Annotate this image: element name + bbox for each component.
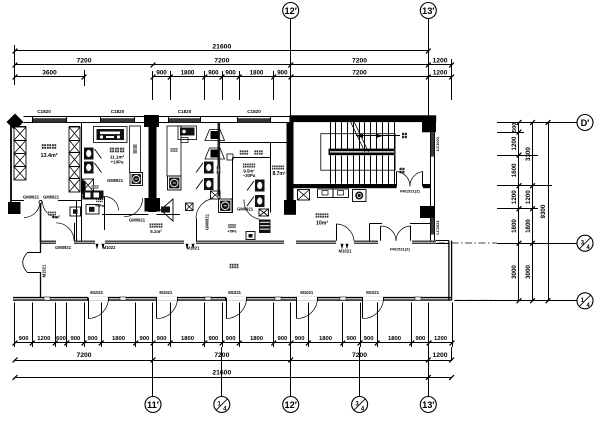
svg-text:1200: 1200 — [433, 70, 448, 77]
svg-text:C1820: C1820 — [37, 109, 51, 114]
svg-text:1800: 1800 — [319, 336, 333, 342]
svg-text:+5Pa: +5Pa — [228, 230, 238, 234]
svg-text:13′: 13′ — [422, 6, 435, 16]
svg-text:GM0921: GM0921 — [43, 195, 60, 200]
svg-text:900: 900 — [156, 70, 167, 77]
svg-text:900: 900 — [277, 70, 288, 77]
svg-text:M1021: M1021 — [366, 290, 379, 295]
svg-text:900: 900 — [226, 336, 237, 342]
svg-text:900: 900 — [157, 336, 168, 342]
svg-text:1800: 1800 — [112, 336, 126, 342]
svg-text:500: 500 — [512, 122, 518, 132]
svg-text:13.4m²: 13.4m² — [40, 153, 57, 159]
svg-text:21600: 21600 — [212, 44, 231, 51]
svg-text:900: 900 — [208, 336, 219, 342]
svg-text:GM0921: GM0921 — [205, 213, 210, 230]
svg-text:1200: 1200 — [434, 336, 448, 342]
svg-text:1200: 1200 — [432, 58, 447, 65]
svg-text:8.7m²: 8.7m² — [272, 171, 285, 177]
svg-text:1200: 1200 — [511, 190, 518, 204]
svg-text:9300: 9300 — [540, 204, 547, 218]
svg-text:1200: 1200 — [525, 190, 532, 204]
svg-text:3300: 3300 — [525, 147, 532, 161]
svg-text:10m²: 10m² — [316, 220, 328, 226]
svg-text:900: 900 — [364, 336, 375, 342]
svg-text:M1021: M1021 — [339, 249, 352, 254]
svg-text:7200: 7200 — [214, 58, 229, 65]
svg-text:1800: 1800 — [250, 336, 264, 342]
svg-text:LC1021: LC1021 — [435, 136, 440, 151]
svg-text:1800: 1800 — [511, 219, 518, 233]
svg-text:–30Pa: –30Pa — [243, 173, 256, 178]
svg-text:1800: 1800 — [525, 219, 532, 233]
svg-text:600: 600 — [56, 336, 67, 342]
svg-text:3000: 3000 — [511, 265, 518, 279]
svg-text:GM0921: GM0921 — [107, 178, 124, 183]
svg-text:900: 900 — [277, 336, 288, 342]
svg-text:7200: 7200 — [76, 58, 91, 65]
svg-text:7200: 7200 — [352, 70, 367, 77]
svg-text:7200: 7200 — [76, 352, 91, 359]
svg-text:1800: 1800 — [181, 336, 195, 342]
svg-text:1600: 1600 — [511, 163, 518, 177]
svg-text:C1820: C1820 — [247, 109, 261, 114]
svg-text:C1820: C1820 — [111, 109, 125, 114]
svg-text:900: 900 — [225, 70, 236, 77]
svg-text:1800: 1800 — [181, 70, 195, 77]
svg-text:+5Pa: +5Pa — [95, 204, 105, 208]
svg-text:1200: 1200 — [432, 352, 447, 359]
svg-text:M1021: M1021 — [228, 290, 241, 295]
svg-text:LC1021: LC1021 — [435, 220, 440, 235]
svg-text:1800: 1800 — [388, 336, 402, 342]
svg-text:3600: 3600 — [42, 70, 57, 77]
svg-text:GM0921: GM0921 — [23, 195, 40, 200]
svg-text:12′: 12′ — [284, 6, 297, 16]
svg-text:13′: 13′ — [422, 400, 435, 410]
svg-text:M1021: M1021 — [159, 290, 172, 295]
svg-text:900: 900 — [19, 336, 30, 342]
svg-text:M1022: M1022 — [103, 245, 116, 250]
svg-text:C1820: C1820 — [178, 109, 192, 114]
svg-text:M1021: M1021 — [300, 290, 313, 295]
svg-text:900: 900 — [295, 336, 306, 342]
svg-text:900: 900 — [88, 336, 99, 342]
svg-text:900: 900 — [139, 336, 150, 342]
svg-text:FM1521(Z): FM1521(Z) — [400, 189, 420, 194]
svg-text:FM1521(Z): FM1521(Z) — [390, 247, 410, 252]
svg-text:+10Pa: +10Pa — [111, 160, 124, 165]
svg-text:GM0921: GM0921 — [55, 245, 72, 250]
svg-text:12′: 12′ — [284, 400, 297, 410]
svg-text:900: 900 — [70, 336, 81, 342]
svg-text:D′: D′ — [581, 118, 591, 128]
svg-text:M1021: M1021 — [90, 290, 103, 295]
svg-text:3000: 3000 — [525, 265, 532, 279]
svg-text:11′: 11′ — [147, 400, 160, 410]
svg-text:GM0921: GM0921 — [129, 218, 146, 223]
svg-text:900: 900 — [346, 336, 357, 342]
svg-text:5.1m²: 5.1m² — [150, 229, 162, 234]
svg-text:1200: 1200 — [37, 336, 51, 342]
svg-text:7200: 7200 — [352, 58, 367, 65]
svg-text:1200: 1200 — [511, 136, 518, 150]
svg-text:900: 900 — [208, 70, 219, 77]
svg-text:M1521: M1521 — [42, 264, 47, 277]
svg-text:M1021: M1021 — [187, 245, 200, 250]
svg-text:900: 900 — [415, 336, 426, 342]
svg-text:1800: 1800 — [250, 70, 264, 77]
